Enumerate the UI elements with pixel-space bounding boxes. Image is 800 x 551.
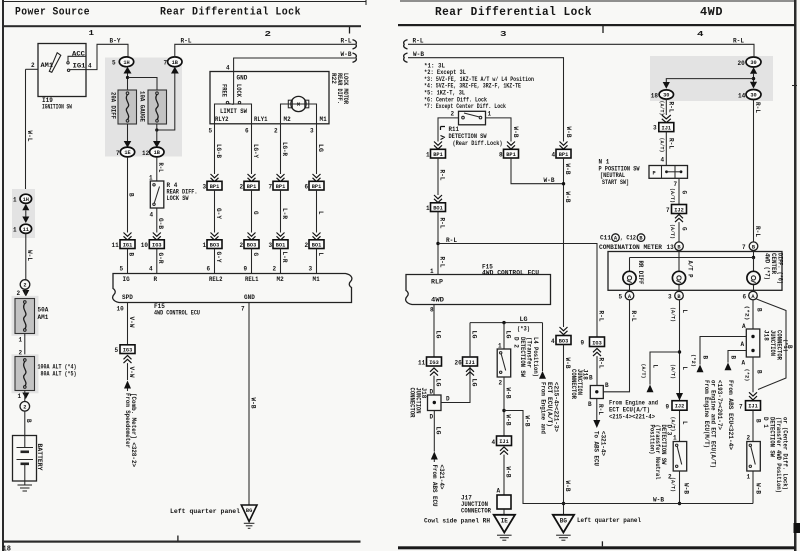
svg-text:3: 3 bbox=[500, 31, 507, 39]
svg-text:FREE: FREE bbox=[221, 84, 228, 97]
wire P sw down to 7 IJ2 bbox=[678, 178, 680, 204]
svg-text:5: 5 bbox=[112, 60, 116, 67]
svg-text:8: 8 bbox=[430, 307, 434, 314]
battery feed column bbox=[25, 69, 27, 194]
svg-text:IG3: IG3 bbox=[152, 242, 162, 248]
svg-text:10: 10 bbox=[117, 306, 125, 313]
arrow from speedometer bbox=[124, 381, 131, 389]
R11 label w/ sw glyph bbox=[441, 127, 446, 140]
wire J18 right to 26 IJ1 bbox=[441, 367, 470, 403]
wire 1B down to junction bbox=[157, 74, 175, 131]
svg-text:100A ALT (*4): 100A ALT (*4) bbox=[38, 363, 77, 370]
svg-text:R-L: R-L bbox=[733, 37, 744, 44]
svg-text:LG-R: LG-R bbox=[281, 142, 288, 156]
svg-text:A: A bbox=[742, 360, 746, 367]
svg-text:R-L: R-L bbox=[754, 102, 761, 113]
svg-text:R11: R11 bbox=[449, 126, 460, 133]
wire R-L top bbox=[408, 44, 754, 57]
svg-text:A: A bbox=[497, 488, 501, 495]
wire GND to BG ground bbox=[248, 303, 250, 506]
wire 6A down bbox=[752, 300, 754, 329]
svg-text:(Transfer: (Transfer bbox=[526, 337, 533, 368]
notes *1-*7 bbox=[424, 62, 534, 110]
svg-text:DETECTION SW: DETECTION SW bbox=[519, 337, 526, 377]
svg-text:80A ALT (*5): 80A ALT (*5) bbox=[41, 371, 77, 378]
wire branch to engine ECU arrow bbox=[650, 352, 680, 385]
wire to battery bbox=[24, 411, 26, 447]
lamp RR DIFF bbox=[623, 258, 644, 292]
svg-text:LG: LG bbox=[504, 331, 511, 339]
wire below 1H bbox=[127, 74, 129, 91]
arrow into 1H bbox=[124, 67, 132, 74]
svg-text:5: 5 bbox=[115, 347, 119, 354]
svg-text:1: 1 bbox=[203, 242, 207, 249]
svg-text:BO1: BO1 bbox=[312, 242, 322, 248]
svg-text:IJ1: IJ1 bbox=[499, 439, 509, 445]
svg-text:LG-B: LG-B bbox=[215, 144, 222, 158]
svg-text:START SW]: START SW] bbox=[602, 179, 629, 186]
circle pin 2 bbox=[20, 280, 30, 290]
svg-text:(Rear Diff.Lock): (Rear Diff.Lock) bbox=[453, 140, 503, 147]
svg-text:R: R bbox=[154, 276, 158, 283]
svg-text:5: 5 bbox=[619, 294, 623, 301]
svg-text:13: 13 bbox=[667, 244, 675, 251]
svg-text:Rear Differential Lock: Rear Differential Lock bbox=[435, 6, 592, 19]
svg-text:B: B bbox=[755, 308, 762, 312]
svg-text:R-L: R-L bbox=[157, 163, 164, 173]
svg-text:4WD CONTROL ECU: 4WD CONTROL ECU bbox=[482, 270, 539, 277]
chevron into IG1 bbox=[124, 233, 132, 241]
svg-text:2: 2 bbox=[23, 283, 26, 289]
svg-text:LOCK: LOCK bbox=[235, 84, 242, 97]
wire to speedometer arrow bbox=[127, 363, 129, 380]
chevrons into BP1 row bbox=[211, 174, 219, 182]
chevrons into BP1 row right page bbox=[434, 142, 442, 150]
svg-text:IG1: IG1 bbox=[123, 242, 133, 248]
svg-text:LOCK SW: LOCK SW bbox=[167, 195, 189, 202]
wire 12 1B down to R4 bbox=[156, 157, 158, 181]
rear diff lock motor R22 box bbox=[210, 72, 329, 124]
svg-text:B: B bbox=[605, 382, 609, 389]
svg-text:18: 18 bbox=[3, 546, 11, 551]
svg-text:B: B bbox=[754, 419, 761, 423]
wire 20A fuse to 1E bbox=[127, 124, 129, 142]
lamp 4WD / CENTER DIFF bbox=[747, 253, 784, 291]
svg-text:B: B bbox=[589, 375, 593, 382]
wire J18 upper branch from engine ECU bbox=[700, 337, 746, 365]
switch D1 detection sw transfer 4WD position bbox=[747, 442, 761, 472]
svg-text:IJ1: IJ1 bbox=[748, 404, 758, 410]
chevron below IG3 (up) bbox=[124, 356, 132, 364]
svg-text:1H: 1H bbox=[23, 197, 29, 203]
wire LG rail to D2 bbox=[503, 323, 505, 349]
wire W-B trunk to 4 BO3 bbox=[560, 327, 568, 335]
wire R11 left to 1 BP1 bbox=[438, 118, 459, 142]
fuse block shade bbox=[105, 58, 182, 157]
svg-text:L-R: L-R bbox=[281, 252, 288, 263]
svg-text:W-B: W-B bbox=[653, 497, 664, 504]
svg-text:11: 11 bbox=[23, 227, 29, 233]
arrow into 1B bottom bbox=[171, 67, 179, 74]
svg-text:(A/T): (A/T) bbox=[658, 101, 664, 116]
svg-text:From Engine ECU(M/T): From Engine ECU(M/T) bbox=[703, 380, 710, 448]
svg-text:G-Y: G-Y bbox=[215, 252, 222, 263]
wire 18 30 down bbox=[665, 99, 667, 115]
svg-text:6: 6 bbox=[207, 266, 211, 273]
svg-text:30: 30 bbox=[663, 93, 669, 99]
svg-text:To ABS ECU: To ABS ECU bbox=[593, 431, 600, 466]
svg-text:<321-4>: <321-4> bbox=[438, 465, 445, 490]
wire J18 down To ABS bbox=[596, 399, 598, 421]
svg-text:*7: Except Center Diff. Lock: *7: Except Center Diff. Lock bbox=[424, 103, 506, 110]
svg-text:(A/T): (A/T) bbox=[658, 138, 664, 153]
svg-text:(Transfer Neutral: (Transfer Neutral bbox=[654, 425, 661, 480]
svg-text:R-L: R-L bbox=[181, 37, 192, 44]
svg-text:W-B: W-B bbox=[564, 192, 571, 203]
arrow into 1E bbox=[124, 141, 132, 148]
svg-text:2: 2 bbox=[747, 435, 751, 442]
svg-text:(A/T): (A/T) bbox=[669, 224, 675, 239]
svg-text:W-B: W-B bbox=[544, 177, 555, 184]
battery bbox=[13, 436, 44, 482]
svg-text:CENTER: CENTER bbox=[770, 253, 777, 274]
svg-text:(*2): (*2) bbox=[690, 354, 696, 367]
svg-text:2: 2 bbox=[499, 380, 503, 387]
svg-text:LG: LG bbox=[317, 144, 324, 152]
svg-text:G: G bbox=[252, 211, 259, 215]
wires BP1 to BO row bbox=[214, 190, 216, 233]
arrow down into 11 bbox=[22, 217, 29, 224]
svg-text:Cowl side panel RH: Cowl side panel RH bbox=[424, 518, 490, 525]
svg-text:RLY2: RLY2 bbox=[215, 116, 229, 123]
wire 26 IJ1 up to LG rail bbox=[469, 323, 471, 357]
svg-text:D: D bbox=[430, 389, 434, 396]
wire J18 B down to 7 IJ1 bbox=[752, 357, 754, 392]
svg-text:IG: IG bbox=[123, 276, 131, 283]
wire 1E down to IG1 bbox=[127, 157, 129, 233]
ground below battery bbox=[24, 481, 26, 485]
bypass wire B around J18 bbox=[757, 299, 787, 390]
chevrons below 26 IJ1 (up) bbox=[466, 368, 474, 376]
svg-text:7: 7 bbox=[269, 184, 273, 191]
svg-text:BG: BG bbox=[246, 508, 252, 514]
switch D2 detection sw transfer L4 position bbox=[497, 349, 511, 377]
svg-text:1: 1 bbox=[13, 197, 17, 204]
svg-text:COMBINATION METER: COMBINATION METER bbox=[599, 244, 662, 251]
wire W-B top bbox=[408, 58, 564, 142]
page continuation brace W-B right bbox=[404, 53, 408, 62]
svg-text:<193-7><201-7>: <193-7><201-7> bbox=[716, 380, 723, 430]
svg-text:1: 1 bbox=[19, 337, 23, 344]
svg-text:J18: J18 bbox=[420, 388, 427, 399]
svg-text:6: 6 bbox=[245, 128, 249, 135]
svg-text:LG: LG bbox=[434, 331, 441, 339]
svg-text:3: 3 bbox=[203, 184, 207, 191]
svg-text:D 3: D 3 bbox=[666, 425, 673, 436]
svg-text:DIFF. (*6): DIFF. (*6) bbox=[777, 253, 784, 284]
svg-text:(*2): (*2) bbox=[744, 369, 750, 382]
wire SPD to IG3 bbox=[127, 303, 129, 345]
svg-text:7: 7 bbox=[742, 244, 746, 251]
svg-text:14: 14 bbox=[738, 93, 746, 100]
svg-text:BP1: BP1 bbox=[247, 184, 257, 190]
svg-text:J18: J18 bbox=[763, 330, 770, 341]
svg-text:W-B: W-B bbox=[512, 127, 519, 138]
svg-text:BO3: BO3 bbox=[210, 242, 220, 248]
svg-text:R-L: R-L bbox=[438, 170, 445, 181]
svg-text:P: P bbox=[653, 170, 656, 176]
svg-text:J18: J18 bbox=[582, 369, 589, 380]
chevrons into 3 IJ1 bbox=[662, 115, 671, 123]
svg-text:CONNECTOR: CONNECTOR bbox=[776, 330, 783, 360]
shade behind 30 connectors bbox=[650, 56, 773, 101]
svg-text:LG: LG bbox=[435, 427, 442, 435]
wires BO row to ECU bbox=[214, 249, 216, 274]
svg-text:GND: GND bbox=[237, 74, 248, 81]
svg-text:<215-4><221-3>: <215-4><221-3> bbox=[552, 382, 559, 432]
svg-text:BO1: BO1 bbox=[433, 205, 443, 211]
svg-text:1B: 1B bbox=[154, 150, 161, 156]
svg-text:2: 2 bbox=[451, 111, 455, 118]
arrow to ABS ECU bbox=[593, 420, 600, 428]
lamp A/T P bbox=[672, 261, 693, 292]
svg-text:2: 2 bbox=[305, 242, 309, 249]
LG rail bbox=[470, 322, 543, 324]
wire 8BP1 down to W-B junction bbox=[511, 158, 564, 184]
4WD control ECU F15 box (left page) bbox=[113, 274, 352, 303]
svg-text:10: 10 bbox=[141, 242, 149, 249]
svg-text:1: 1 bbox=[13, 227, 17, 234]
arrow into circle 2 bbox=[22, 393, 29, 400]
wire BO1 down to ECU bbox=[437, 212, 439, 275]
svg-text:11: 11 bbox=[418, 360, 426, 367]
svg-text:R-L: R-L bbox=[597, 358, 604, 369]
svg-text:R-L: R-L bbox=[446, 237, 457, 244]
svg-text:4WD: 4WD bbox=[700, 6, 723, 19]
svg-text:4: 4 bbox=[552, 152, 556, 159]
ground rail W-B bbox=[523, 503, 753, 505]
svg-text:Left quarter panel: Left quarter panel bbox=[170, 508, 240, 515]
svg-text:CONNECTOR: CONNECTOR bbox=[570, 369, 577, 399]
wire J18 lower branch from ABS ECU bbox=[728, 351, 746, 363]
wire branch to ground rail bbox=[504, 411, 564, 504]
svg-text:2: 2 bbox=[240, 242, 244, 249]
svg-text:R-L: R-L bbox=[597, 404, 604, 415]
ground IE bbox=[503, 509, 505, 515]
svg-text:From Engine and: From Engine and bbox=[539, 382, 546, 434]
svg-text:3: 3 bbox=[269, 242, 273, 249]
svg-text:REAR DIFF.: REAR DIFF. bbox=[336, 73, 343, 104]
limit sw cell bbox=[215, 104, 252, 124]
arrow up into 1H bbox=[22, 204, 29, 211]
svg-text:W-L: W-L bbox=[26, 131, 33, 142]
bottom border left page bbox=[3, 541, 361, 543]
svg-text:4: 4 bbox=[697, 31, 704, 39]
svg-text:3: 3 bbox=[653, 125, 657, 132]
meter internal rail bbox=[630, 257, 754, 259]
svg-text:(A/T): (A/T) bbox=[670, 477, 676, 492]
svg-text:4: 4 bbox=[661, 157, 665, 164]
svg-text:BO3: BO3 bbox=[247, 242, 257, 248]
svg-text:20A DIFF: 20A DIFF bbox=[110, 92, 117, 119]
svg-text:G-R: G-R bbox=[157, 253, 164, 264]
wire branch to 10A fuse bbox=[128, 78, 158, 91]
junction connector J18 (B) bbox=[741, 329, 789, 367]
svg-text:L: L bbox=[681, 310, 688, 314]
wire R11 right to 8 BP1 bbox=[486, 118, 512, 142]
node R-L branch bbox=[436, 242, 439, 245]
svg-text:REL1: REL1 bbox=[245, 276, 259, 283]
svg-text:RR DIFF: RR DIFF bbox=[637, 261, 644, 285]
svg-text:R-L: R-L bbox=[438, 218, 445, 229]
svg-text:(A/T): (A/T) bbox=[670, 307, 676, 322]
wire D3 to ground rail bbox=[679, 471, 681, 504]
arrow into 50A fuse bbox=[22, 290, 29, 297]
svg-text:1: 1 bbox=[89, 30, 95, 38]
svg-text:1: 1 bbox=[673, 435, 677, 442]
chevrons below 4 IJ1 (up) bbox=[500, 447, 508, 455]
wire 7B into meter rail bbox=[753, 251, 755, 272]
svg-text:B: B bbox=[755, 370, 762, 374]
svg-text:AM1: AM1 bbox=[41, 62, 54, 69]
svg-text:8: 8 bbox=[499, 152, 503, 159]
svg-text:RLP: RLP bbox=[431, 279, 443, 286]
svg-text:Power Source: Power Source bbox=[15, 7, 90, 19]
svg-text:W-B: W-B bbox=[249, 398, 256, 409]
svg-text:7: 7 bbox=[241, 306, 245, 313]
wire 13B into meter lamp2 bbox=[678, 251, 680, 272]
junction connector J18 (R-L) bbox=[570, 369, 609, 408]
wire R-L to page edge bbox=[175, 44, 355, 57]
junction connector J17 bbox=[497, 495, 511, 509]
node 1B/gauge junction bbox=[155, 128, 158, 131]
svg-text:V-W: V-W bbox=[128, 367, 135, 378]
svg-text:B: B bbox=[128, 253, 135, 257]
svg-text:30: 30 bbox=[750, 93, 756, 99]
combination meter box bbox=[608, 252, 782, 291]
svg-text:LOCK MOTOR: LOCK MOTOR bbox=[342, 73, 349, 104]
svg-text:IJ1: IJ1 bbox=[465, 360, 475, 366]
svg-text:1: 1 bbox=[426, 205, 430, 212]
wire D1 to ground rail bbox=[752, 471, 754, 504]
switch R11 detection sw (rear diff lock) bbox=[451, 111, 492, 125]
svg-text:L-R: L-R bbox=[281, 208, 288, 219]
svg-text:W-B: W-B bbox=[682, 483, 689, 494]
arrow down into 14 30 bbox=[750, 82, 757, 89]
svg-text:3: 3 bbox=[310, 128, 314, 135]
svg-text:(A/T): (A/T) bbox=[669, 188, 675, 203]
svg-text:<215-4><221-4>: <215-4><221-4> bbox=[609, 413, 655, 420]
svg-text:L: L bbox=[317, 253, 324, 257]
svg-text:B: B bbox=[588, 401, 592, 408]
svg-text:4: 4 bbox=[492, 439, 496, 446]
svg-text:A: A bbox=[741, 341, 745, 348]
switch D3 detection sw transfer neutral position bbox=[673, 442, 687, 472]
node L branch bbox=[678, 350, 681, 353]
svg-text:D 1: D 1 bbox=[762, 417, 769, 428]
node fuse feed junction bbox=[126, 76, 129, 79]
chevrons below 9 IG3 (up) bbox=[593, 349, 601, 357]
wire 4WD pin down bbox=[433, 305, 435, 358]
svg-text:BP1: BP1 bbox=[433, 152, 443, 158]
svg-text:3: 3 bbox=[309, 266, 313, 273]
svg-text:BO1: BO1 bbox=[276, 242, 286, 248]
svg-text:9: 9 bbox=[666, 404, 670, 411]
wire branch to 18 30 bbox=[666, 79, 753, 83]
svg-text:2: 2 bbox=[31, 62, 35, 69]
chevrons into BO row bbox=[211, 233, 219, 241]
svg-text:2: 2 bbox=[240, 184, 244, 191]
svg-text:R-L: R-L bbox=[754, 226, 761, 237]
svg-text:1: 1 bbox=[747, 474, 751, 481]
svg-text:6: 6 bbox=[305, 184, 309, 191]
4WD control ECU F15 box (right page) bbox=[406, 275, 551, 305]
svg-text:7: 7 bbox=[674, 181, 678, 188]
svg-text:2: 2 bbox=[23, 405, 26, 411]
chevrons below 11 IG3 (up) bbox=[430, 368, 438, 376]
svg-text:7: 7 bbox=[666, 207, 670, 214]
svg-text:BP1: BP1 bbox=[312, 184, 322, 190]
chevrons into 1 BO1 bbox=[434, 195, 442, 203]
header separator left page bbox=[3, 25, 362, 27]
arrow into 9 IJ2 bbox=[676, 393, 683, 401]
svg-text:9: 9 bbox=[244, 266, 248, 273]
svg-text:W-B: W-B bbox=[754, 483, 761, 494]
svg-text:CONNECTOR: CONNECTOR bbox=[461, 508, 491, 515]
svg-text:M1: M1 bbox=[313, 276, 321, 283]
node D2 ground branch bbox=[502, 409, 505, 412]
arrow from Engine ECT ECU (*3 LG) bbox=[542, 323, 544, 371]
svg-text:B: B bbox=[701, 356, 708, 360]
svg-text:W-B: W-B bbox=[565, 127, 572, 138]
svg-text:B-Y: B-Y bbox=[110, 37, 121, 44]
svg-text:6: 6 bbox=[743, 294, 747, 301]
svg-text:2: 2 bbox=[265, 31, 272, 39]
svg-text:50A: 50A bbox=[38, 307, 49, 314]
motor M bbox=[288, 96, 309, 111]
svg-text:1H: 1H bbox=[123, 60, 129, 66]
svg-text:G: G bbox=[252, 253, 259, 257]
svg-text:B: B bbox=[729, 356, 736, 360]
svg-text:R-L: R-L bbox=[597, 311, 604, 322]
column tick 1/2 bbox=[349, 27, 351, 34]
svg-text:G: G bbox=[680, 191, 687, 195]
svg-text:4: 4 bbox=[551, 338, 555, 345]
wire 1BP1 down bbox=[437, 158, 439, 195]
svg-text:7: 7 bbox=[164, 60, 168, 67]
gnd wire inside bbox=[233, 72, 235, 105]
svg-text:(A/T): (A/T) bbox=[640, 364, 646, 379]
svg-text:10A GAUGE: 10A GAUGE bbox=[139, 91, 146, 122]
svg-text:4: 4 bbox=[150, 212, 154, 219]
svg-text:20: 20 bbox=[738, 60, 746, 67]
svg-text:IE: IE bbox=[501, 518, 509, 525]
svg-text:R-L: R-L bbox=[413, 37, 424, 44]
chevrons below 7 IJ2 (up) bbox=[675, 215, 683, 223]
svg-text:2: 2 bbox=[273, 266, 277, 273]
svg-text:4: 4 bbox=[88, 63, 92, 70]
svg-text:L: L bbox=[317, 211, 324, 215]
svg-text:C11: C11 bbox=[600, 235, 611, 242]
svg-text:1: 1 bbox=[18, 393, 22, 400]
svg-text:M2: M2 bbox=[284, 116, 292, 123]
wire 10A fuse to 12 1B bbox=[156, 124, 158, 142]
bottom border right page bbox=[398, 546, 796, 549]
arrow up into 20 30 bbox=[750, 67, 757, 73]
wire M1 column bbox=[316, 124, 318, 174]
svg-text:IJ2: IJ2 bbox=[674, 207, 684, 213]
wire 7 IJ1 down to D1 bbox=[752, 410, 754, 441]
